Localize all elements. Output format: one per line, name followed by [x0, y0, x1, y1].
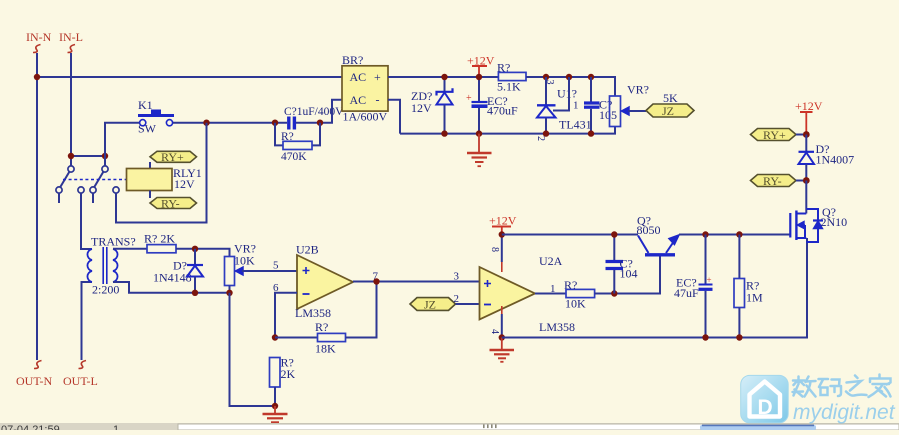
wire BR plus output rail — [388, 76, 498, 78]
relay contact arms — [60, 172, 104, 188]
switch K1 — [138, 98, 174, 136]
svg-text:JZ: JZ — [424, 298, 436, 312]
node junction EC47 top — [702, 231, 708, 237]
svg-text:3: 3 — [454, 271, 460, 283]
diode D? 1N4148 — [153, 249, 203, 293]
wire U2B output to U2A pin3 — [353, 281, 480, 283]
svg-text:AC: AC — [350, 93, 367, 107]
node IN-N — [26, 30, 52, 53]
wire VR bottom down to ground run — [230, 293, 276, 406]
op-amp U2A LM358 — [480, 254, 576, 334]
svg-text:RY+: RY+ — [763, 128, 786, 142]
node OUT-L — [63, 361, 98, 389]
svg-text:R? 2K: R? 2K — [144, 232, 175, 246]
svg-text:R?: R? — [315, 320, 328, 334]
svg-text:1N4007: 1N4007 — [816, 153, 855, 167]
node junction EC47 bottom — [702, 334, 708, 340]
wire BR minus down to DC rail — [388, 100, 400, 134]
node junction output 7 — [373, 278, 379, 284]
node junction TL431 anode — [543, 130, 549, 136]
svg-text:+12V: +12V — [795, 99, 823, 113]
wire IN-N vertical to OUT-N — [36, 53, 38, 360]
potentiometer VR? 5K — [610, 83, 679, 127]
svg-text:IN-N: IN-N — [26, 30, 52, 44]
ground regulator — [467, 134, 492, 167]
watermark logo mydigit — [741, 375, 896, 425]
svg-text:mydigit.net: mydigit.net — [793, 401, 896, 424]
wire R10K to 8050 base — [595, 257, 660, 294]
node junction IN-L common — [68, 153, 74, 159]
node junction IN-N rail — [34, 74, 40, 80]
svg-text:TRANS?: TRANS? — [91, 235, 136, 249]
svg-text:5K: 5K — [663, 91, 678, 105]
capacitor C1 1uF/400V — [284, 106, 344, 130]
node junction C105 top — [588, 74, 594, 80]
svg-text:8: 8 — [489, 247, 500, 252]
wire coil to RY- — [149, 191, 151, 199]
svg-text:+: + — [374, 70, 381, 84]
svg-text:1: 1 — [550, 283, 556, 295]
svg-text:470K: 470K — [281, 151, 307, 163]
node junction feedback — [272, 334, 278, 340]
wire RY- to drain — [805, 181, 807, 214]
svg-text:2N10: 2N10 — [821, 215, 848, 229]
power +12V left — [467, 54, 495, 76]
resistor R2K divider — [270, 356, 296, 407]
wire feedback node vertical — [275, 293, 297, 338]
svg-text:104: 104 — [620, 267, 638, 281]
node OUT-N — [16, 361, 53, 389]
pin 4 wire — [489, 306, 502, 338]
wire RY- stub — [796, 180, 803, 182]
resistor R1M — [734, 235, 763, 338]
svg-text:5.1K: 5.1K — [497, 80, 521, 94]
wire R2K to VR top — [176, 249, 230, 257]
wire IN-L vertical — [70, 53, 72, 166]
node junction K1 latch — [203, 120, 209, 126]
svg-text:LM358: LM358 — [539, 320, 575, 334]
capacitor C? 104 — [606, 235, 638, 294]
power +12V U2A — [489, 214, 517, 234]
svg-text:10K: 10K — [565, 297, 586, 311]
node junction C104 top — [611, 231, 617, 237]
resistor R10K — [564, 278, 595, 311]
svg-text:U2A: U2A — [539, 254, 563, 268]
node junction D anode — [192, 290, 198, 296]
wire K1 left branch — [105, 123, 139, 166]
wire contact to transformer primary top — [81, 193, 92, 249]
wire K1 right to RC — [173, 122, 287, 124]
wire RY+ stub — [796, 134, 803, 136]
node junction EC top — [476, 74, 482, 80]
svg-text:OUT-N: OUT-N — [16, 374, 53, 388]
transistor Q? 2N10 MOSFET — [790, 205, 847, 242]
node junction +12V rail A — [499, 231, 505, 237]
node junction ZD top — [441, 74, 447, 80]
pin 8 wire — [489, 235, 502, 273]
wire R18K to output — [346, 282, 377, 338]
svg-text:IN-L: IN-L — [59, 30, 83, 44]
svg-text:5: 5 — [273, 260, 279, 272]
svg-text:47uF: 47uF — [674, 286, 699, 300]
svg-text:U1?: U1? — [557, 87, 577, 101]
node junction EC bottom — [476, 130, 482, 136]
op-amp U2B LM358 — [295, 243, 353, 321]
wire top AC rail — [37, 76, 342, 78]
wire RY+ to coil — [149, 162, 151, 169]
node junction R2K ground — [272, 403, 278, 409]
wire RC right side — [296, 100, 342, 123]
svg-text:SW: SW — [138, 122, 157, 136]
node junction TL431 ref — [566, 74, 572, 80]
node junction R1M bottom — [736, 334, 742, 340]
wire VR wiper to JZ — [628, 110, 646, 112]
svg-text:JZ: JZ — [662, 104, 674, 118]
node junction RC right — [317, 120, 323, 126]
node junction pin4 rail — [499, 334, 505, 340]
svg-text:+: + — [466, 93, 472, 104]
wire latch loop to relay contact — [116, 123, 207, 223]
svg-text:+: + — [707, 275, 712, 285]
svg-text:105: 105 — [599, 108, 617, 122]
svg-text:2: 2 — [454, 293, 460, 305]
ground divider — [263, 406, 288, 422]
transformer TRANS? 2:200 — [87, 235, 135, 297]
power +12V right — [795, 99, 823, 132]
node junction D cathode — [192, 246, 198, 252]
wire secondary top — [113, 248, 147, 250]
relay contact top poles — [68, 166, 108, 172]
potentiometer VR? 10K — [225, 242, 257, 293]
svg-text:+12V: +12V — [489, 214, 517, 228]
svg-text:4: 4 — [489, 329, 500, 334]
svg-text:07-04 21:59: 07-04 21:59 — [1, 424, 60, 430]
relay coil RLY1 12V — [127, 166, 202, 191]
power port RY+ right — [751, 128, 797, 142]
resistor R470K — [281, 131, 312, 163]
svg-text:BR?: BR? — [342, 53, 363, 67]
node junction VR bottom — [226, 290, 232, 296]
node junction RY+ — [803, 131, 810, 138]
wire bottom rail B — [502, 238, 807, 338]
relay contact throws — [56, 187, 119, 193]
node junction R1M top — [736, 231, 742, 237]
wire regulator top rail — [526, 77, 615, 96]
op-amp reference U1? TL431 — [535, 77, 592, 141]
svg-text:1M: 1M — [746, 291, 763, 305]
capacitor EC? 470uF — [466, 77, 518, 134]
transistor Q? 8050 — [637, 214, 680, 255]
svg-text:K1: K1 — [138, 98, 153, 112]
svg-text:AC: AC — [350, 70, 367, 84]
diode D? 1N4007 — [799, 135, 855, 181]
wire U2A output — [535, 293, 566, 295]
svg-text:10K: 10K — [234, 254, 255, 268]
svg-text:1: 1 — [573, 100, 579, 112]
capacitor EC? 47uF — [674, 235, 713, 338]
node junction K1 common — [102, 153, 108, 159]
svg-text:OUT-L: OUT-L — [63, 374, 98, 388]
power port JZ upper — [646, 104, 694, 118]
wire primary bottom to OUT-L — [82, 282, 93, 360]
svg-text:RY-: RY- — [763, 174, 782, 188]
wire secondary bottom rail — [113, 282, 230, 293]
status bar strip — [0, 423, 899, 435]
svg-text:12V: 12V — [411, 101, 432, 115]
power port JZ lower — [410, 298, 456, 312]
svg-text:2:200: 2:200 — [92, 283, 119, 297]
ground U2A — [490, 338, 515, 362]
svg-text:RY-: RY- — [161, 197, 180, 211]
svg-text:D: D — [758, 396, 773, 419]
svg-text:2K: 2K — [281, 367, 296, 381]
svg-text:U2B: U2B — [296, 243, 319, 257]
svg-text:-: - — [376, 93, 380, 107]
resistor R5.1K — [497, 61, 526, 94]
svg-text:470uF: 470uF — [487, 104, 518, 118]
node junction TL431 cathode — [543, 74, 549, 80]
capacitor C? 105 — [584, 77, 617, 134]
svg-text:TL431: TL431 — [559, 118, 592, 132]
resistor R2K series — [144, 232, 176, 253]
wire rail A to 8050 collector — [502, 234, 638, 236]
wire mech dashed link — [63, 179, 127, 181]
wire rail B emitter run — [679, 234, 790, 236]
svg-text:LM358: LM358 — [295, 306, 331, 320]
svg-text:C?1uF/400V: C?1uF/400V — [284, 106, 344, 118]
svg-text:1: 1 — [113, 424, 119, 430]
wire relay common link — [71, 155, 105, 157]
node junction ZD bottom — [441, 130, 447, 136]
svg-text:RY+: RY+ — [161, 150, 184, 164]
svg-text:18K: 18K — [315, 342, 336, 356]
node junction RC left — [272, 120, 278, 126]
relay contact stubs — [59, 193, 93, 203]
svg-text:1A/600V: 1A/600V — [343, 110, 388, 124]
svg-text:12V: 12V — [174, 177, 195, 191]
zener diode ZD? 12V — [411, 77, 453, 134]
wire feedback to R18K — [275, 337, 318, 339]
power port RY- left — [150, 197, 197, 211]
node junction RY- — [803, 177, 810, 184]
wire R470K branch — [275, 123, 283, 146]
wire DC minus rail — [400, 127, 615, 134]
power port RY+ left — [150, 150, 197, 164]
wire JZ to U2A pin2 — [456, 303, 480, 305]
svg-text:8050: 8050 — [637, 223, 661, 237]
node junction C104 bottom — [611, 290, 617, 296]
node IN-L — [59, 30, 83, 53]
power port RY- right — [751, 174, 797, 188]
node junction C105 bottom — [588, 130, 594, 136]
svg-text:2: 2 — [535, 136, 546, 141]
wire wiper to U2B plus pin5 — [242, 270, 297, 272]
resistor R18K — [315, 320, 346, 356]
svg-text:VR?: VR? — [627, 83, 649, 97]
bridge rectifier BR? — [342, 53, 388, 124]
